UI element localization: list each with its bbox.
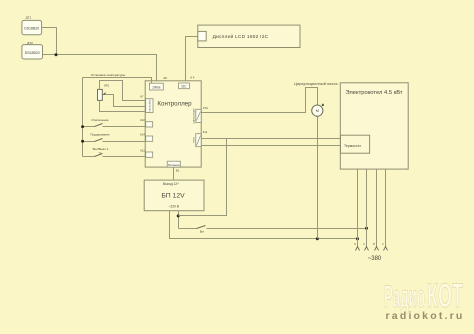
pin I2C bbox=[179, 83, 190, 89]
kettle box bbox=[340, 83, 408, 169]
pin 1Wire bbox=[150, 83, 164, 90]
terminal C bbox=[382, 244, 387, 251]
sensor DT1 box bbox=[22, 20, 42, 34]
switch Vkl bbox=[179, 226, 206, 234]
node bus junction bbox=[55, 53, 58, 56]
svg-text:К11: К11 bbox=[140, 149, 145, 153]
wire common rail top bbox=[83, 78, 152, 84]
svg-text:К12: К12 bbox=[140, 118, 145, 122]
wire 1-Wire bus bbox=[43, 55, 157, 84]
switch S1 bbox=[83, 124, 146, 127]
svg-text:ДТ2: ДТ2 bbox=[27, 41, 33, 45]
svg-text:В1: В1 bbox=[176, 168, 180, 172]
svg-text:КОТ: КОТ bbox=[427, 276, 463, 314]
svg-text:тэны: тэны bbox=[193, 137, 196, 143]
wire K11 lower to thermostat bbox=[202, 145, 341, 147]
svg-text:Термостат: Термостат bbox=[344, 144, 361, 148]
wire PSU L down bbox=[178, 211, 180, 229]
svg-text:Установка температуры: Установка температуры bbox=[91, 73, 126, 77]
pin box K11L bbox=[146, 152, 153, 157]
pin box K11R bbox=[196, 134, 201, 147]
svg-text:Поддержание: Поддержание bbox=[90, 133, 110, 137]
node N kettle bbox=[356, 237, 359, 240]
node L branch bbox=[177, 214, 180, 217]
svg-text:Циркуляционный насос: Циркуляционный насос bbox=[294, 82, 338, 86]
svg-text:К7А: К7А bbox=[203, 106, 208, 110]
potentiometer VR1 bbox=[98, 89, 107, 100]
pin Pitanie bbox=[167, 161, 180, 167]
svg-text:1Wire: 1Wire bbox=[152, 86, 161, 90]
node L kettle bbox=[365, 227, 368, 230]
svg-text:M: M bbox=[316, 109, 319, 113]
display connector pin bbox=[198, 31, 206, 41]
wire phase C bbox=[385, 170, 387, 247]
terminal A bbox=[363, 243, 368, 251]
wire phase N bbox=[357, 170, 359, 247]
wire PSU N line bbox=[170, 211, 358, 239]
wire pot wiper bbox=[105, 95, 146, 107]
watermark Радио КОТ bbox=[384, 276, 463, 314]
controller U1 box bbox=[145, 81, 201, 167]
svg-text:DS18B20: DS18B20 bbox=[24, 27, 39, 31]
wire pot bottom bbox=[100, 101, 146, 112]
svg-text:А 4: А 4 bbox=[190, 76, 195, 80]
svg-text:Вкл/Выкл 1: Вкл/Выкл 1 bbox=[93, 147, 109, 151]
wire pot top bbox=[100, 81, 146, 101]
node rail S2 bbox=[81, 140, 84, 143]
svg-text:VR1: VR1 bbox=[104, 84, 110, 88]
PSU BP12V box bbox=[144, 180, 204, 211]
svg-text:К14: К14 bbox=[140, 132, 145, 136]
svg-text:БП 12V: БП 12V bbox=[161, 192, 185, 199]
wire K7A to motor bbox=[202, 88, 318, 113]
pin box K7A bbox=[196, 109, 201, 122]
sensor DT2 box bbox=[22, 45, 43, 59]
display U2 box bbox=[198, 25, 300, 47]
wire DT1 to bus bbox=[42, 28, 57, 55]
svg-text:I2C: I2C bbox=[181, 85, 187, 89]
svg-text:настройка: настройка bbox=[149, 99, 152, 111]
wire motor down bbox=[317, 117, 319, 239]
svg-text:К11: К11 bbox=[203, 130, 208, 134]
pin box K14 bbox=[146, 136, 153, 141]
svg-text:А7: А7 bbox=[140, 95, 144, 99]
wire L to kettle bbox=[207, 228, 367, 230]
thermostat box bbox=[341, 135, 370, 153]
svg-text:~380: ~380 bbox=[368, 256, 382, 262]
svg-text:Питание: Питание bbox=[168, 163, 180, 167]
wire phase B bbox=[376, 170, 378, 247]
motor M1 bbox=[312, 104, 324, 120]
switch S2 bbox=[83, 139, 146, 142]
svg-text:~220 В: ~220 В bbox=[168, 205, 178, 209]
node N motor bbox=[316, 237, 319, 240]
connector pot pins bbox=[146, 99, 153, 113]
svg-text:Выход 12+: Выход 12+ bbox=[163, 182, 179, 186]
svg-text:Отключение: Отключение bbox=[91, 118, 109, 122]
wire V1 to PSU bbox=[173, 168, 175, 181]
svg-text:DS18B20: DS18B20 bbox=[25, 51, 40, 55]
terminal N bbox=[354, 244, 359, 251]
wire display to I2C bbox=[186, 37, 198, 84]
svg-text:циркуляция: циркуляция bbox=[193, 108, 196, 123]
wire common rail bbox=[82, 78, 84, 157]
terminal B bbox=[373, 244, 378, 251]
svg-text:Электрокотел 4.5 кВт: Электрокотел 4.5 кВт bbox=[345, 90, 402, 96]
wire K11 upper to thermostat bbox=[202, 138, 341, 140]
svg-text:А8: А8 bbox=[163, 76, 167, 80]
svg-text:radiokot.ru: radiokot.ru bbox=[386, 310, 465, 322]
node rail S1 bbox=[81, 125, 84, 128]
svg-text:Контроллер: Контроллер bbox=[157, 101, 192, 108]
svg-text:ДТ1: ДТ1 bbox=[26, 16, 32, 20]
svg-text:Вкл: Вкл bbox=[200, 230, 205, 233]
wire L branch to controller bbox=[179, 139, 227, 216]
wire phase A bbox=[366, 170, 368, 247]
pin box K12 bbox=[146, 122, 153, 127]
switch S3 bbox=[83, 153, 146, 157]
